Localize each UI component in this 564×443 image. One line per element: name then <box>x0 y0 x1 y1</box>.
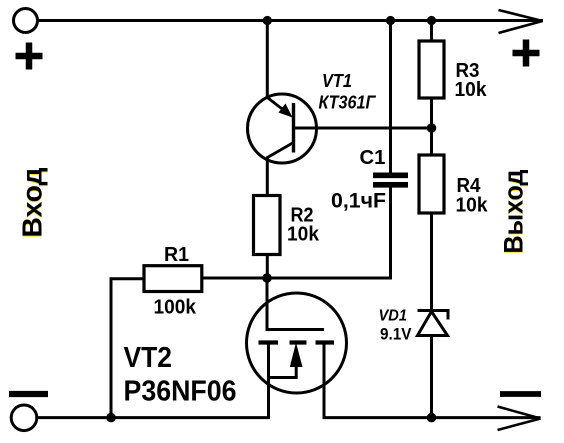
zener diode VD1 triangle <box>418 312 448 336</box>
wire: zener anode to bottom rail <box>430 336 433 418</box>
svg-text:Выход: Выход <box>499 170 529 254</box>
node: R1/bottom-rail junction <box>106 413 116 423</box>
node: C1/top-rail junction <box>386 16 395 25</box>
wire: source to bottom rail <box>267 343 270 418</box>
input terminal (top left) <box>14 9 38 33</box>
svg-text:Вход: Вход <box>17 167 48 237</box>
svg-text:0,1чF: 0,1чF <box>331 190 386 213</box>
svg-text:P36NF06: P36NF06 <box>124 376 237 408</box>
plus symbol (output) <box>513 40 540 67</box>
plus symbol (input) <box>16 43 43 70</box>
wire: collector to R2 <box>266 157 269 197</box>
svg-text:10k: 10k <box>455 78 488 101</box>
wire: bottom rail right segment <box>323 416 541 419</box>
VT2 body arrow <box>290 343 303 368</box>
output arrow (top right) <box>499 10 543 33</box>
zener diode VD1 cathode bar <box>418 311 449 320</box>
resistor R3 <box>419 41 444 98</box>
capacitor C1 top plate <box>373 173 408 179</box>
VT2 channel segment (drain) <box>316 340 335 344</box>
VT2 channel segment (body) <box>290 340 307 344</box>
output terminal (bottom left) <box>11 405 37 431</box>
node: VD1/bottom-rail junction <box>427 413 437 423</box>
svg-text:100k: 100k <box>154 296 197 319</box>
node: R1/R2/gate/C1 junction <box>262 273 272 283</box>
wire: top rail to C1 <box>389 21 392 173</box>
svg-text:VD1: VD1 <box>379 308 408 325</box>
transistor VT1 body <box>248 94 317 163</box>
node: R3/R4/base junction <box>427 123 437 133</box>
VT1 emitter with arrow <box>267 98 290 116</box>
svg-text:VT1: VT1 <box>322 70 352 91</box>
wire: junction row to C1 bottom <box>202 186 391 278</box>
svg-text:10k: 10k <box>287 223 320 246</box>
wire: top rail <box>38 19 544 22</box>
wire: R3 to node <box>430 98 433 155</box>
minus symbol (input) <box>9 391 48 397</box>
output arrow (bottom right) <box>498 407 541 431</box>
resistor R2 <box>254 196 281 255</box>
VT1 collector diagonal <box>267 143 294 159</box>
wire: base lead to R3/R4 node <box>294 127 432 130</box>
svg-text:КТ361Г: КТ361Г <box>319 92 377 113</box>
node: R3/top-rail junction <box>427 16 436 25</box>
svg-text:10k: 10k <box>456 194 489 217</box>
wire: R2 to gate node <box>266 255 269 279</box>
wire: emitter drop from top rail <box>266 21 269 99</box>
VT2 channel segment (source) <box>259 340 279 344</box>
wire: drain to bottom rail <box>323 343 326 418</box>
svg-text:C1: C1 <box>360 146 386 169</box>
wire: R4 to zener <box>430 213 433 311</box>
minus symbol (output) <box>500 391 541 397</box>
wire: gate drop <box>267 278 324 330</box>
resistor R1 <box>144 266 202 292</box>
VT1 base bar <box>292 103 295 153</box>
wire: R1 left leg down to bottom rail <box>111 279 144 418</box>
svg-text:VT2: VT2 <box>124 342 173 374</box>
svg-text:R1: R1 <box>164 243 189 266</box>
node: emitter/top-rail junction <box>263 16 272 25</box>
wire: top rail to R3 <box>430 21 433 42</box>
transistor VT2 body <box>247 293 347 393</box>
capacitor C1 bottom plate <box>373 182 408 188</box>
svg-text:9.1V: 9.1V <box>380 326 412 344</box>
resistor R4 <box>419 155 444 213</box>
wire: bottom rail left segment <box>37 416 270 419</box>
